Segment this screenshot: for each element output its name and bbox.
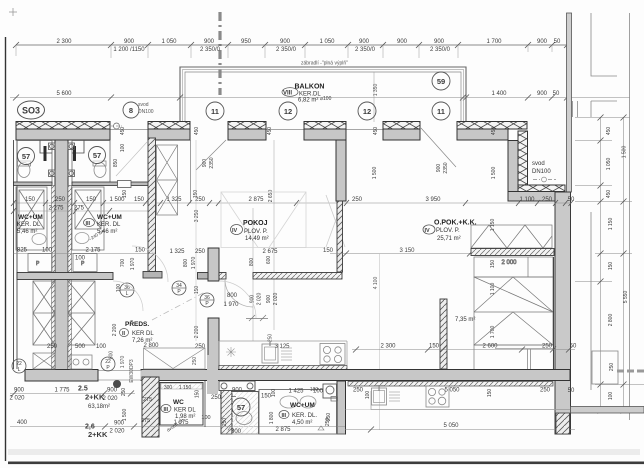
svg-text:250: 250 [325,418,331,427]
right exterior wall column lower wide [555,192,571,434]
svg-text:150: 150 [25,197,36,203]
wall under WC rooms [14,182,149,186]
svg-text:1 970: 1 970 [120,356,126,369]
svg-text:3 250: 3 250 [194,210,200,223]
hall door labels [223,293,279,308]
svod DN100 top [138,102,154,115]
svg-text:900: 900 [397,39,408,45]
1075 dim [173,420,189,426]
svg-text:900: 900 [436,164,442,173]
svg-text:1 425: 1 425 [288,389,304,395]
svg-text:8: 8 [129,106,133,115]
EW30DP3 vertical note [129,359,135,383]
vertical dim labels x375 [372,127,379,180]
circle 59 [432,72,450,90]
svg-text:PLOV. P.: PLOV. P. [244,229,268,235]
svg-text:DN100: DN100 [532,169,551,175]
dim line 5050 bottom [345,427,575,433]
closet along PREDS south wall [144,348,206,369]
svg-text:2 300: 2 300 [56,39,72,45]
PREDS room label [120,319,155,344]
hatched wall block bottom-left [142,377,159,437]
svg-text:900: 900 [537,91,548,97]
svg-text:250: 250 [353,388,364,394]
top-left corner mark [9,8,17,16]
light floor hatch WC room [232,392,258,435]
hatched wall block bottom mid [221,382,232,434]
svg-text:450: 450 [120,127,126,136]
kitchen2 stove [426,386,449,407]
svg-text:KER. DL: KER. DL [17,222,41,228]
BALKON room label [282,84,332,104]
svg-text:2 600: 2 600 [482,344,498,350]
svg-text:1 325: 1 325 [169,249,185,255]
svg-text:2 020: 2 020 [257,293,263,306]
bottom-left dim texts row [231,429,242,435]
svg-text:⌀100: ⌀100 [320,96,332,102]
svg-text:500: 500 [75,344,86,350]
svg-text:900: 900 [434,39,445,45]
svg-text:100: 100 [271,389,277,398]
svg-text:63,18m²: 63,18m² [88,404,110,410]
kitchen mid sink [262,341,278,363]
svg-text:900: 900 [14,388,25,394]
WC room outline bottom [231,392,259,435]
svg-text:WC+UM: WC+UM [97,214,122,221]
circle 22 L bottom [12,359,26,373]
extension line x274 [273,140,275,330]
svg-text:275: 275 [141,418,150,424]
WC room tiled band top [161,384,202,399]
svg-text:150: 150 [135,248,146,254]
svg-text:1 100: 1 100 [519,197,535,203]
kitchen mid stove [320,344,345,365]
svg-text:250: 250 [540,388,551,394]
balcony width dim 1350 [373,72,379,122]
door swing top opening left [196,140,226,170]
O.POK dim line 3150 [323,248,473,257]
svg-text:150: 150 [122,190,128,199]
WC+UM label 1 [17,214,43,235]
100 label WC right [201,415,210,421]
svg-text:VIII: VIII [283,91,292,97]
kitchen mid drainer [281,348,292,360]
WC+UM room1 toilet [18,161,31,178]
svg-text:57: 57 [93,151,101,160]
vertical gray wall x337 bottom [337,381,346,434]
svg-text:svod: svod [138,102,149,108]
wall stub left of pillar [198,273,209,280]
svg-text:100: 100 [310,387,319,393]
second dimension line 5600 [10,91,630,101]
svg-text:O.POK.+K.K.: O.POK.+K.K. [434,220,477,227]
svg-text:950: 950 [241,39,252,45]
WC room outline bottom [160,381,205,427]
svg-text:450: 450 [267,127,273,136]
svg-text:IV: IV [425,228,431,234]
top dimension labels row1 [56,39,561,53]
circle 36 L [120,283,134,297]
POKOJ room label [231,220,269,242]
exterior top wall block 5 [383,122,420,141]
dim row y251 middle [169,249,278,255]
door swing top opening right [421,128,456,167]
interior vertical dim labels x269 [267,127,274,203]
left vertical dim labels column x122 [112,127,136,337]
hatched pillar in OPOK [440,299,447,369]
bottom small dims [211,389,324,434]
svg-text:III: III [282,413,287,419]
svg-text:900: 900 [280,39,291,45]
svg-text:2350: 2350 [209,157,215,168]
svg-text:250: 250 [47,344,58,350]
party wall hatch strips [52,186,72,370]
wardrobe right shelf [474,257,553,277]
O.POK room label [423,220,477,243]
bottom dim row y426 [10,420,345,439]
svg-text:3 950: 3 950 [425,197,441,203]
svg-text:WC: WC [173,399,184,406]
svg-text:2 200: 2 200 [194,326,200,339]
svg-text:900: 900 [359,39,370,45]
circle 8 [123,102,139,118]
dim row y347 left-middle [47,343,290,350]
svg-text:DN100: DN100 [138,109,154,115]
svg-text:900: 900 [266,295,272,304]
svg-text:700: 700 [120,259,126,268]
scan bottom shadow band [8,449,640,455]
svg-text:250: 250 [211,395,222,401]
svg-text:250: 250 [192,357,198,366]
svg-text:1 700: 1 700 [486,39,502,45]
diagonal note bottom-left [166,417,185,433]
vertical cross wall x208 lower [207,355,218,394]
WC+UM room 1 outline [17,141,52,184]
main south wall gray band [25,370,570,381]
svg-text:250: 250 [542,344,553,350]
WG room label [161,399,196,420]
second dim line 2275 row [11,208,148,214]
central party wall vertical (T stem) [55,140,68,370]
bottom room baseline [221,433,345,435]
unit label 2.5 / 2+KK [78,386,110,411]
small stove bottom-left [70,355,92,369]
circle 12b [358,102,376,120]
svg-text:250: 250 [352,197,363,203]
svg-text:2 175: 2 175 [85,248,101,254]
svg-text:2 020: 2 020 [109,429,125,435]
kitchen2 dims [353,388,575,430]
svg-text:PLOV. P.: PLOV. P. [436,228,460,234]
circle 34 P [172,281,186,295]
svg-text:900: 900 [537,39,548,45]
lower-left dim row y253 [14,248,156,262]
4100 vertical dim [373,254,380,431]
svg-text:2 800: 2 800 [608,314,614,327]
svg-text:850: 850 [113,159,119,168]
svg-text:450: 450 [373,127,379,136]
svg-text:50: 50 [568,197,575,203]
svg-text:2 875: 2 875 [275,427,291,433]
SO3 label [18,101,45,119]
svg-text:3 150: 3 150 [399,248,415,254]
svg-text:250: 250 [55,197,66,203]
svg-text:50: 50 [554,39,561,45]
svg-text:50: 50 [570,344,577,350]
door frame box 1 bottom [219,381,255,391]
svg-text:zábradlí -"plná výplň": zábradlí -"plná výplň" [301,61,348,67]
svg-text:KER. DL: KER. DL [97,222,121,228]
svg-text:2 300: 2 300 [380,344,396,350]
svg-text:L: L [18,367,21,373]
circle 57 bottom [232,398,250,416]
kitchen2 sink [372,385,387,405]
svg-text:150: 150 [86,197,97,203]
escape dash line [152,292,205,320]
WC+UM room1 door leaf [44,146,47,161]
svg-text:450: 450 [606,127,612,136]
svg-text:2 650: 2 650 [268,190,274,203]
svg-text:50: 50 [553,91,560,97]
svg-text:5 050: 5 050 [443,423,459,429]
hatch band above main south wall (left apartment) [219,366,347,370]
7,35 m2 label [455,317,475,323]
circle 36 P [200,293,214,307]
svg-text:600: 600 [266,256,272,265]
svg-text:250: 250 [195,249,206,255]
svg-text:1 800: 1 800 [269,412,275,425]
washer P box 2 [73,254,97,272]
exterior top wall block 1 [16,122,110,141]
svg-text:150: 150 [323,248,334,254]
svg-text:2 875: 2 875 [248,197,264,203]
svg-text:svod: svod [532,161,545,167]
svg-text:825: 825 [17,248,28,254]
hatched wall above wardrobe [471,249,554,256]
rotated 250 near kitchen left [268,334,274,343]
svg-text:1 500: 1 500 [122,409,128,422]
svg-text:57: 57 [237,403,245,412]
bottom dim row y393 [9,388,135,403]
svg-text:450: 450 [606,190,612,199]
svg-text:12: 12 [284,107,292,116]
svg-text:59: 59 [437,77,445,86]
100 label WC+UM right [310,387,319,393]
door jamb marks on party wall [49,143,75,177]
900 door label bottom [232,388,243,394]
WC+UM room 2 outline [72,141,110,184]
svg-text:150: 150 [487,389,493,398]
svg-text:900: 900 [107,388,118,394]
svg-text:2 020: 2 020 [102,396,118,402]
door dot [113,380,121,388]
WC+UM bottom label [279,402,317,426]
rotated 800 left [109,351,115,360]
pillar lower [208,318,219,370]
balcony outline [180,67,466,122]
svg-text:100: 100 [120,144,126,153]
circle 22 P bottom [101,357,115,371]
svg-text:900: 900 [124,39,135,45]
section cut dash line [218,12,221,95]
svg-text:SO3: SO3 [22,106,40,116]
svg-text:275: 275 [143,397,152,403]
small closet X bottom-left [33,353,55,369]
svg-text:900: 900 [204,39,215,45]
svg-text:250: 250 [542,197,553,203]
shower cabin 1 [16,187,47,250]
svg-text:1 500: 1 500 [491,167,497,180]
svg-text:2350: 2350 [443,162,449,173]
closet beside hatched wall [157,145,178,215]
svg-text:WC+UM: WC+UM [290,402,315,409]
svg-text:100: 100 [608,392,614,401]
svg-text:800: 800 [249,258,255,267]
right margin dim chain ticks [575,118,644,411]
door labels rotated middle [249,256,272,267]
exterior top wall block 3 [228,122,266,141]
svg-text:1 500: 1 500 [372,167,378,180]
corner furniture faint [326,195,345,247]
svg-text:14,49 m²: 14,49 m² [245,236,269,242]
top dimension chain line [13,42,570,58]
svg-text:2 675: 2 675 [262,249,278,255]
svg-text:PŘEDS.: PŘEDS. [125,319,149,328]
right margin labels [606,127,629,401]
svod DN100 middle [532,161,556,182]
counter top line POKOJ kitchen [219,341,347,365]
balcony edge ticks on 5600 line [177,95,466,101]
toilet bottom [236,412,252,425]
svg-text:EW30DP3: EW30DP3 [129,359,135,383]
hall door swing arcs [113,246,256,318]
shower cabin 2 [72,187,104,250]
right shaft box bottom [592,351,618,384]
svg-text:100: 100 [365,391,371,400]
circle 11a [206,102,224,120]
svg-text:2 350/0: 2 350/0 [355,47,376,53]
svg-text:300: 300 [164,385,173,391]
svg-text:2 000: 2 000 [501,260,517,266]
svg-text:250: 250 [222,418,228,427]
hatched wall horizontal POKOJ south [219,273,342,280]
door opening gap left [99,369,141,382]
svg-text:800: 800 [183,259,189,268]
WC+UM room2 door leaf [73,146,76,161]
svg-text:250: 250 [121,388,127,397]
svg-text:50: 50 [568,388,575,394]
svg-text:100: 100 [201,415,210,421]
240cm note diagonal [88,228,105,242]
basin 2 bottom [300,396,316,408]
svg-text:1 970: 1 970 [223,302,239,308]
WC+UM label 2 [84,214,122,235]
svg-text:11: 11 [211,107,219,116]
exterior top wall block 4 corner [304,122,346,141]
wall above closets left [17,273,113,280]
svg-text:1 400: 1 400 [491,91,507,97]
svg-text:450: 450 [491,127,497,136]
svg-text:150: 150 [195,390,201,399]
svg-text:KER DL: KER DL [174,408,196,414]
scan page left border [5,37,7,461]
wardrobe right body [474,277,553,345]
right balcony slab bar [571,407,644,414]
right wall hatched foot [556,413,570,434]
svg-text:III: III [164,407,169,413]
washer P box 1 [28,254,52,272]
svg-text:5,46 m²: 5,46 m² [17,229,37,235]
svg-text:900: 900 [232,388,243,394]
door 900/2350 label right [436,162,449,173]
south wall left thick segment [25,370,98,382]
POKOJ west wall edge line [190,140,192,203]
svg-text:250: 250 [195,344,206,350]
svg-text:1 970: 1 970 [130,258,136,271]
svg-text:2 020: 2 020 [273,293,279,306]
kitchen2 counter line [346,391,644,410]
svg-text:4 100: 4 100 [373,277,379,290]
svg-text:2 350/0: 2 350/0 [200,47,221,53]
svg-text:3 125: 3 125 [274,344,290,350]
washer box in WC+UM corner [323,384,338,401]
circle 12a [279,102,297,120]
door opening stub lines [99,371,143,381]
svg-text:100: 100 [96,344,107,350]
svg-text:1 775: 1 775 [54,388,70,394]
exterior top wall block 2 [148,122,190,141]
svg-text:IV: IV [232,228,238,234]
hatch band below south wall (right apartment) [348,382,553,387]
bed furniture POKOJ faint [221,192,325,248]
right neighbour outline lines [573,13,630,420]
svg-text:150: 150 [194,286,200,295]
svg-text:2 275: 2 275 [48,206,64,212]
tall closet left A [33,281,55,345]
svg-text:2.5: 2.5 [78,386,88,393]
tall closet left B [68,281,95,345]
svg-text:450: 450 [194,127,200,136]
svg-text:L: L [126,291,129,297]
svg-text:BALKON: BALKON [295,84,325,91]
svg-text:25,71 m²: 25,71 m² [437,236,461,242]
door swing 800 hall [225,279,253,307]
1970 vertical note left [120,356,126,369]
rotated 250 closet [192,357,198,366]
corner wall left of POKOJ: vertical gray [336,140,346,201]
zabradli note [301,61,348,67]
drain circle top wall [111,123,122,129]
svg-text:800: 800 [227,293,238,299]
svg-text:5,46 m²: 5,46 m² [97,229,117,235]
svg-text:KER DL: KER DL [132,331,154,337]
svg-text:300: 300 [231,429,242,435]
door sill marks hall [246,315,268,321]
interior vertical dim labels x196 [193,127,200,339]
svg-text:2 350/0: 2 350/0 [276,47,297,53]
svg-text:III: III [86,221,91,227]
svg-text:2+KK: 2+KK [88,430,108,439]
svg-text:5 050: 5 050 [444,388,460,394]
pillar upper [208,248,219,281]
svg-text:1 970: 1 970 [191,257,197,270]
svg-text:57: 57 [22,152,30,161]
corridor door swing [116,142,147,176]
extension line x196 [195,140,197,341]
svg-text:11: 11 [437,107,445,116]
wardrobe lower shelf [474,345,554,370]
250 / 1500 / 275 labels [121,388,152,424]
